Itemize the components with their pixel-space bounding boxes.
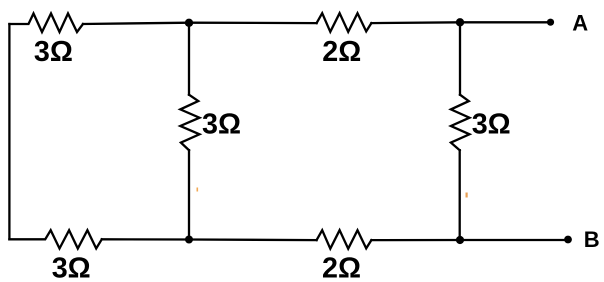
resistor 3Ω bottom-left (9, 230, 101, 248)
terminal A dot (547, 19, 554, 26)
artifact orange tick right (466, 193, 468, 198)
wire right vertical upper lead (459, 22, 461, 94)
node junction bottom-right (456, 236, 464, 244)
wire right vertical lower lead (459, 150, 461, 240)
svg-text:3Ω: 3Ω (52, 253, 91, 282)
svg-text:3Ω: 3Ω (34, 36, 73, 68)
resistor 2Ω bottom (317, 230, 372, 249)
resistor 3Ω top-left (9, 14, 83, 33)
wire bottom rail right segment (371, 239, 460, 241)
node junction top-right (456, 18, 464, 26)
node junction top-middle (185, 19, 193, 27)
wire top rail middle segment (189, 22, 317, 25)
wire bottom rail middle segment (102, 238, 317, 241)
svg-text:3Ω: 3Ω (472, 108, 511, 140)
wire top rail right segment (371, 21, 460, 24)
wire to terminal A (460, 21, 551, 23)
wire left vertical (8, 24, 10, 239)
wire to terminal B (460, 239, 568, 241)
terminal B dot (564, 236, 572, 244)
resistor 2Ω top (317, 13, 372, 32)
wire middle vertical upper lead (188, 23, 190, 95)
wire top rail left segment (83, 23, 189, 24)
node junction bottom-middle (185, 236, 193, 244)
resistor 3Ω middle vertical (180, 95, 199, 151)
resistor 3Ω right vertical (451, 95, 470, 151)
svg-text:A: A (572, 11, 588, 36)
svg-text:B: B (584, 227, 600, 252)
artifact orange tick middle (197, 188, 199, 192)
svg-text:2Ω: 2Ω (322, 36, 361, 68)
svg-text:3Ω: 3Ω (202, 108, 241, 140)
wire middle vertical lower lead (188, 150, 190, 239)
svg-text:2Ω: 2Ω (322, 252, 361, 282)
